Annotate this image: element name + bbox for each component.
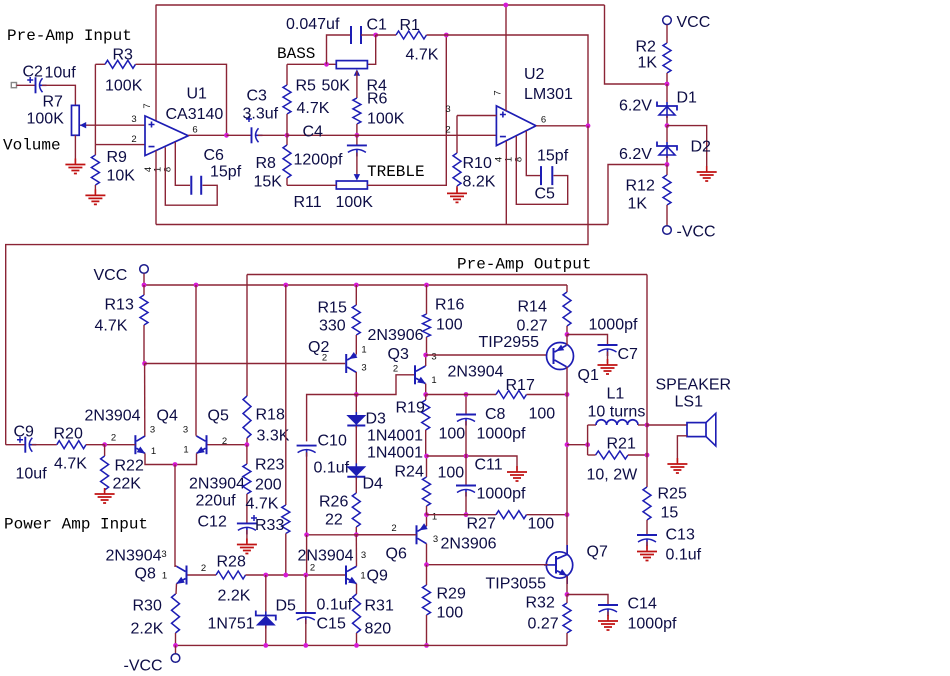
svg-text:100: 100 (438, 465, 465, 482)
op-amp U2 LM301 (496, 106, 536, 146)
svg-text:C6: C6 (204, 147, 225, 164)
resistor R1 4.7K (376, 34, 396, 36)
terminal -VCC bottom (175, 645, 177, 653)
svg-text:4.7K: 4.7K (297, 100, 330, 117)
svg-text:10uf: 10uf (45, 65, 77, 82)
terminal VCC bottom (140, 265, 149, 274)
transistor Q4 2N3904 NPN (134, 435, 136, 454)
junction C3/R5/R8 (285, 133, 290, 138)
svg-text:R28: R28 (217, 554, 246, 571)
terminal VCC top right (663, 16, 672, 25)
transistor Q6 2N3906 PNP (416, 525, 418, 544)
svg-text:2: 2 (391, 523, 396, 534)
wire speaker feedback vertical (646, 275, 648, 488)
ground D1 D2 net (697, 172, 717, 181)
svg-text:R8: R8 (256, 155, 277, 172)
ground below C14 (598, 621, 618, 630)
svg-text:4.7K: 4.7K (95, 318, 128, 335)
svg-text:1: 1 (431, 375, 436, 386)
svg-text:22: 22 (325, 512, 343, 529)
junction pin7 top border (503, 3, 508, 8)
capacitor C10 0.1uf (297, 445, 317, 447)
svg-text:Q5: Q5 (208, 408, 229, 425)
svg-text:6: 6 (541, 115, 546, 126)
resistor R14 0.27 (566, 285, 568, 292)
junction rail -VCC (173, 643, 178, 648)
capacitor C12 220uf (237, 522, 257, 524)
wire D4 to R26 (355, 477, 357, 493)
capacitor C3 3.3uf (227, 134, 252, 136)
svg-text:10K: 10K (107, 168, 136, 185)
svg-text:1000pf: 1000pf (628, 616, 677, 633)
wire D2 to R12 node (666, 156, 668, 165)
svg-text:100K: 100K (367, 111, 405, 128)
junction Q7 emitter node (565, 592, 570, 597)
svg-text:8: 8 (162, 167, 173, 172)
svg-text:R7: R7 (43, 94, 64, 111)
resistor R10 8.2K (456, 116, 458, 154)
wire feedback down to R18 (246, 275, 248, 397)
svg-text:100: 100 (437, 605, 464, 622)
ground below R10 (447, 193, 467, 202)
svg-text:C12: C12 (198, 514, 227, 531)
resistor R33 4.7K (282, 505, 290, 534)
junction C15 top (303, 573, 308, 578)
svg-text:R23: R23 (255, 457, 284, 474)
svg-text:2: 2 (111, 433, 116, 444)
junction R6/C4/pin2 line (355, 133, 360, 138)
svg-text:10 turns: 10 turns (588, 404, 646, 421)
svg-text:R2: R2 (636, 39, 657, 56)
svg-text:R25: R25 (658, 486, 687, 503)
svg-text:2: 2 (310, 563, 315, 574)
junction R2/D1 (665, 82, 670, 87)
wire tone node to U2 pin2 (287, 134, 496, 136)
svg-text:R10: R10 (463, 155, 492, 172)
junction rail R15 (354, 283, 359, 288)
svg-text:0.1uf: 0.1uf (317, 597, 353, 614)
svg-text:820: 820 (365, 621, 392, 638)
wire R1 to U2 output vertical (446, 35, 588, 126)
capacitor C1 0.047uf (351, 26, 361, 44)
junction D2/R12 (665, 162, 670, 167)
resistor R12 1K (666, 165, 668, 176)
inductor L1 10 turns (588, 424, 596, 426)
junction D5 bottom rail (263, 643, 268, 648)
svg-text:-VCC: -VCC (677, 224, 716, 241)
svg-text:3: 3 (183, 425, 188, 436)
junction C10 / Q6 base line (304, 532, 309, 537)
wire R3 left leg down to pin2 net (94, 64, 96, 144)
junction C8 top R17 line (464, 392, 469, 397)
resistor R29 100 (426, 565, 428, 585)
svg-text:R30: R30 (133, 598, 162, 615)
svg-text:Volume: Volume (3, 137, 61, 155)
svg-text:4.7K: 4.7K (246, 496, 279, 513)
wire D3 to D4 (355, 426, 357, 466)
capacitor C6 15pf (191, 176, 201, 195)
svg-text:22K: 22K (113, 476, 142, 493)
svg-text:2: 2 (445, 125, 450, 136)
wire C10 to Q6 base line (306, 452, 308, 535)
junction Q3 emitter node (423, 392, 428, 397)
svg-text:2N3906: 2N3906 (441, 536, 497, 553)
transistor Q1 TIP2955 PNP (547, 343, 574, 370)
wire R7 wiper to U1 pin3 (80, 124, 145, 126)
ground speaker (667, 464, 687, 473)
svg-text:1: 1 (151, 446, 156, 457)
wire speaker bottom to ground (677, 436, 687, 462)
wire Q2 node to Q3 base (356, 375, 415, 395)
wire to L1/R21 pair (567, 444, 588, 446)
svg-text:1000pf: 1000pf (477, 486, 526, 503)
svg-text:C3: C3 (247, 88, 268, 105)
svg-text:7: 7 (142, 103, 153, 108)
junction C1/R1/BASS-right (373, 33, 378, 38)
junction C8 bottom node (464, 454, 469, 459)
wire R8 bottom to TREBLE left (287, 184, 336, 186)
junction C11 bottom R27 line (464, 512, 469, 517)
wire R7 bottom to ground (74, 135, 76, 162)
svg-text:C7: C7 (618, 346, 639, 363)
capacitor C4 1200pf (356, 135, 358, 145)
wire D-node to ground (667, 126, 707, 170)
svg-text:R26: R26 (319, 494, 348, 511)
wire BASS wiper to R6 (356, 71, 358, 98)
svg-text:U1: U1 (187, 86, 208, 103)
wire Q1 base line (426, 354, 548, 356)
svg-text:0.1uf: 0.1uf (314, 460, 350, 477)
svg-text:C1: C1 (367, 17, 388, 34)
wire C1 right to R1 line (361, 34, 376, 36)
wire U1 output (188, 134, 226, 136)
ground below C13 (637, 552, 657, 561)
terminal -VCC right (663, 226, 672, 235)
capacitor C2 10uf (35, 77, 37, 93)
wire C4 to TREBLE wiper (356, 153, 358, 176)
svg-text:2N3904: 2N3904 (106, 548, 162, 565)
potentiometer R4 50K BASS (336, 61, 367, 69)
svg-text:CA3140: CA3140 (166, 106, 224, 123)
svg-text:3: 3 (150, 425, 155, 436)
junction U1 output node (224, 133, 229, 138)
svg-text:2N3904: 2N3904 (298, 548, 354, 565)
junction R1 left vertical (444, 33, 449, 38)
svg-text:R13: R13 (105, 297, 134, 314)
resistor R3 100K (95, 63, 105, 65)
wire TREBLE right to R1 vertical (367, 35, 446, 185)
capacitor C7 1000pf (598, 344, 618, 346)
wire R5 top to BASS pot left (287, 63, 336, 65)
svg-text:TIP3055: TIP3055 (486, 576, 547, 593)
svg-text:Q4: Q4 (157, 408, 178, 425)
potentiometer R11 100K TREBLE (336, 181, 367, 189)
wire input to C2 (17, 84, 36, 86)
svg-text:6.2V: 6.2V (619, 98, 652, 115)
svg-text:C14: C14 (628, 596, 657, 613)
junction output to L1/R21 (565, 442, 570, 447)
svg-text:D1: D1 (677, 90, 698, 107)
resistor R25 15 (643, 487, 651, 520)
svg-text:1N751: 1N751 (208, 616, 255, 633)
svg-text:100: 100 (528, 516, 555, 533)
svg-text:100: 100 (436, 317, 463, 334)
svg-text:200: 200 (255, 477, 282, 494)
capacitor C14 1000pf (567, 595, 608, 606)
svg-text:R11: R11 (294, 194, 322, 211)
wire Q5 collector (195, 285, 197, 436)
wire U1 pin4 to bottom border (155, 151, 157, 225)
capacitor C8 1000pf (465, 395, 467, 415)
wire U2 pin4 to bottom border (505, 141, 507, 225)
wire 456 node to C11 ground leg (427, 456, 518, 470)
wire D1 to D2 node (666, 116, 668, 126)
svg-text:C4: C4 (303, 124, 324, 141)
wire to speaker (647, 424, 687, 426)
svg-text:1: 1 (162, 571, 167, 582)
svg-text:1K: 1K (638, 55, 658, 72)
svg-text:D5: D5 (276, 598, 297, 615)
svg-text:2: 2 (393, 364, 398, 375)
wire Q7 base line (427, 564, 549, 566)
resistor R24 100 (426, 456, 428, 477)
resistor R13 4.7K (143, 285, 145, 295)
junction D-chain / Q6 base line (354, 532, 359, 537)
svg-text:1200pf: 1200pf (294, 152, 343, 169)
svg-text:Pre-Amp Input: Pre-Amp Input (7, 27, 132, 45)
svg-text:R18: R18 (256, 407, 285, 424)
zener diode D2 6.2V (666, 126, 668, 142)
wire bottom border of pre-amp loop (156, 224, 608, 226)
svg-text:C5: C5 (535, 186, 556, 203)
resistor R16 100 (426, 285, 428, 314)
svg-text:Q9: Q9 (367, 568, 388, 585)
wire C2 to R7 top (42, 85, 75, 105)
svg-text:LM301: LM301 (524, 86, 573, 103)
svg-text:3: 3 (131, 114, 136, 125)
svg-text:C2: C2 (23, 64, 44, 81)
wire U2 pin8 to C5 (526, 131, 540, 176)
svg-text:2N3904: 2N3904 (189, 476, 245, 493)
svg-text:0.27: 0.27 (528, 616, 559, 633)
svg-text:BASS: BASS (277, 45, 315, 63)
resistor R32 0.27 (566, 595, 568, 604)
svg-text:VCC: VCC (94, 267, 128, 284)
resistor R9 10K (94, 145, 96, 155)
svg-text:C9: C9 (14, 424, 35, 441)
svg-text:Q1: Q1 (578, 367, 599, 384)
svg-text:3.3K: 3.3K (257, 428, 290, 445)
junction Q5 base / R18 / R23 (245, 442, 250, 447)
svg-text:100K: 100K (27, 111, 65, 128)
junction diff pair tail (173, 462, 178, 467)
wire Q1 collector down to output net (566, 395, 568, 515)
svg-text:7: 7 (493, 90, 504, 95)
svg-text:15pf: 15pf (537, 148, 569, 165)
svg-text:R1: R1 (400, 17, 421, 34)
svg-text:-VCC: -VCC (124, 658, 163, 675)
svg-text:100: 100 (529, 406, 556, 423)
svg-text:1K: 1K (628, 196, 648, 213)
resistor R26 22 (352, 493, 360, 527)
transistor Q2 2N3906 PNP (345, 354, 347, 373)
resistor R20 4.7K (32, 444, 57, 446)
wire BASS pot right leg (367, 35, 375, 64)
junction U2 output feedback (586, 123, 591, 128)
wire C1 left leg (327, 35, 352, 64)
capacitor C13 0.1uf (637, 534, 657, 536)
wire right border down to R2 node (605, 5, 666, 84)
resistor R8 15K (286, 135, 288, 145)
svg-text:R3: R3 (113, 47, 134, 64)
wire to C7 (567, 335, 608, 346)
svg-text:C10: C10 (318, 433, 347, 450)
svg-text:Power Amp Input: Power Amp Input (4, 516, 148, 534)
svg-text:R14: R14 (518, 299, 547, 316)
svg-text:R31: R31 (365, 598, 394, 615)
junction R21 right (645, 453, 650, 458)
wire U1 pin7 (155, 5, 157, 121)
svg-text:15pf: 15pf (210, 164, 242, 181)
resistor R5 4.7K (286, 64, 288, 85)
svg-text:1: 1 (360, 571, 365, 582)
svg-text:R27: R27 (467, 516, 496, 533)
svg-text:U2: U2 (524, 66, 545, 83)
svg-text:2: 2 (322, 353, 327, 364)
svg-text:3: 3 (445, 104, 450, 115)
diode D5 1N751 zener (265, 575, 267, 612)
junction R33 bottom (283, 573, 288, 578)
junction Q6 emitter R27 line (424, 512, 429, 517)
resistor R27 100 (427, 514, 497, 516)
junction BASS left / C1 (324, 62, 329, 67)
wire R2 to D1 (666, 84, 668, 102)
junction D5 top (263, 573, 268, 578)
junction R14 / C7 (565, 332, 570, 337)
svg-text:TREBLE: TREBLE (367, 163, 425, 181)
transistor Q7 TIP3055 NPN (546, 552, 572, 578)
svg-text:6.2V: 6.2V (619, 146, 652, 163)
capacitor C9 10uf power amp input (6, 444, 26, 446)
junction rail R16 (424, 283, 429, 288)
wire pre-amp output feedback line (247, 274, 647, 276)
svg-text:2N3904: 2N3904 (448, 364, 504, 381)
junction D1/D2/ground (665, 123, 670, 128)
svg-text:0.047uf: 0.047uf (286, 16, 340, 33)
svg-text:Q8: Q8 (135, 566, 156, 583)
svg-text:3: 3 (433, 534, 438, 545)
resistor R17 100 (426, 394, 496, 396)
svg-text:3.3uf: 3.3uf (243, 106, 279, 123)
input terminal (11, 83, 16, 88)
svg-text:2N3906: 2N3906 (368, 327, 424, 344)
resistor R22 22K (104, 445, 106, 456)
wire C12 to ground (246, 530, 248, 543)
junction Q2 collector node (354, 392, 359, 397)
svg-text:L1: L1 (607, 386, 625, 403)
svg-text:Q3: Q3 (388, 346, 409, 363)
ground below R9 (85, 195, 105, 204)
svg-text:3: 3 (361, 363, 366, 374)
svg-text:1: 1 (432, 512, 437, 523)
wire U1 pin2 (95, 144, 145, 146)
junction R29 bottom rail (424, 643, 429, 648)
junction R13/Q4 collector/Q2 base line (142, 361, 147, 366)
svg-text:100K: 100K (105, 78, 143, 95)
svg-text:3: 3 (361, 550, 366, 561)
svg-text:R12: R12 (626, 178, 655, 195)
svg-text:3: 3 (161, 549, 166, 560)
ground below C12 (237, 545, 257, 554)
wire U2 output down to pre-amp output run (6, 126, 588, 445)
ground below C7 (598, 365, 618, 374)
svg-text:10uf: 10uf (16, 466, 48, 483)
transistor Q9 2N3904 NPN (345, 566, 347, 585)
resistor R30 2.2K (175, 593, 178, 595)
resistor R18 3.3K (243, 396, 251, 438)
svg-text:R16: R16 (435, 297, 464, 314)
svg-text:R22: R22 (115, 458, 144, 475)
svg-text:LS1: LS1 (675, 394, 704, 411)
svg-text:15: 15 (661, 505, 679, 522)
svg-text:C8: C8 (485, 406, 506, 423)
junction R27 right / Q7 collector (565, 512, 570, 517)
resistor R19 100 (425, 395, 427, 401)
wire VCC to rail (143, 274, 145, 286)
junction Q6/Q7 base node (424, 562, 429, 567)
svg-text:R32: R32 (526, 595, 555, 612)
svg-text:R17: R17 (506, 377, 535, 394)
svg-text:1000pf: 1000pf (589, 317, 638, 334)
svg-text:R9: R9 (107, 149, 128, 166)
svg-text:1N4001: 1N4001 (367, 445, 423, 462)
wire R13 node down to Q4 collector (144, 364, 146, 437)
resistor R28 2.2K (216, 571, 246, 579)
wire VCC rail (144, 284, 567, 286)
svg-text:SPEAKER: SPEAKER (656, 377, 732, 394)
transistor Q5 2N3904 NPN mirrored (206, 435, 208, 454)
svg-text:2: 2 (131, 134, 136, 145)
wire Q2 node to C10 branch (307, 395, 357, 442)
transistor Q3 2N3904 NPN (414, 365, 416, 384)
svg-text:2.2K: 2.2K (218, 588, 251, 605)
wire Q4 base stub (105, 444, 136, 446)
junction rail Q5 collector (194, 283, 199, 288)
svg-text:2: 2 (201, 563, 206, 574)
svg-text:3: 3 (431, 352, 436, 363)
wire C5 to U2 pin1 (516, 136, 567, 204)
svg-text:15K: 15K (254, 174, 283, 191)
junction L1R21 left (585, 442, 590, 447)
svg-text:1000pf: 1000pf (477, 426, 526, 443)
svg-text:1: 1 (361, 345, 366, 356)
svg-text:R33: R33 (255, 517, 284, 534)
svg-text:D4: D4 (363, 476, 384, 493)
ground below R22 (95, 494, 115, 503)
svg-text:0.1uf: 0.1uf (666, 547, 702, 564)
svg-text:50K: 50K (322, 78, 351, 95)
svg-text:220uf: 220uf (196, 493, 237, 510)
junction VCC rail at R13 (142, 283, 147, 288)
svg-text:TIP2955: TIP2955 (479, 334, 540, 351)
svg-text:R5: R5 (296, 78, 317, 95)
svg-text:8: 8 (513, 157, 524, 162)
wire Q6 base stub (356, 534, 416, 536)
svg-text:R20: R20 (54, 426, 83, 443)
resistor R23 200 (246, 445, 248, 464)
resistor R6 100K (353, 98, 361, 124)
wire zener node up to Q6 base line (306, 535, 308, 575)
